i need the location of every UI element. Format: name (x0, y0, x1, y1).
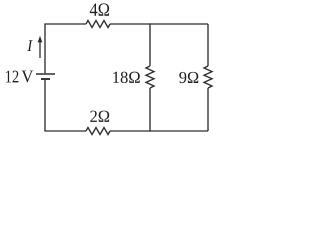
wire top-right segment (R1 to top-right corner) (110, 23, 208, 25)
resistor R3 9ohm (204, 66, 212, 88)
battery V1 negative plate (short) (41, 78, 50, 80)
node A (top T-junction of middle branch) (149, 23, 150, 24)
current arrow I shaft (39, 42, 41, 59)
current arrow I head (38, 36, 43, 43)
label 9 ohm (R3 value) (179, 72, 198, 83)
wire middle branch lower segment (149, 88, 151, 131)
resistor R4 2ohm (86, 128, 110, 135)
wire middle branch upper segment (149, 24, 151, 66)
wire right lower segment (207, 88, 209, 131)
label 18 ohm (R2 value) (113, 72, 140, 84)
wire right upper segment (207, 24, 209, 66)
wire bottom-right segment (110, 130, 208, 132)
wire bottom-left segment (R4 to battery - terminal) (45, 80, 86, 131)
wire left-top segment (battery + terminal up to top-left corner, then right to R1) (45, 24, 86, 73)
resistor R2 18ohm (146, 66, 154, 88)
label 2 ohm (R4 value) (90, 111, 109, 122)
battery V1 positive plate (long) (36, 73, 55, 75)
node B (bottom T-junction of middle branch) (149, 130, 150, 131)
resistor R1 4ohm (86, 21, 110, 28)
label I (current) (27, 40, 33, 51)
label 4 ohm (R1 value) (90, 3, 109, 15)
label 12 V (battery value) (6, 71, 19, 83)
